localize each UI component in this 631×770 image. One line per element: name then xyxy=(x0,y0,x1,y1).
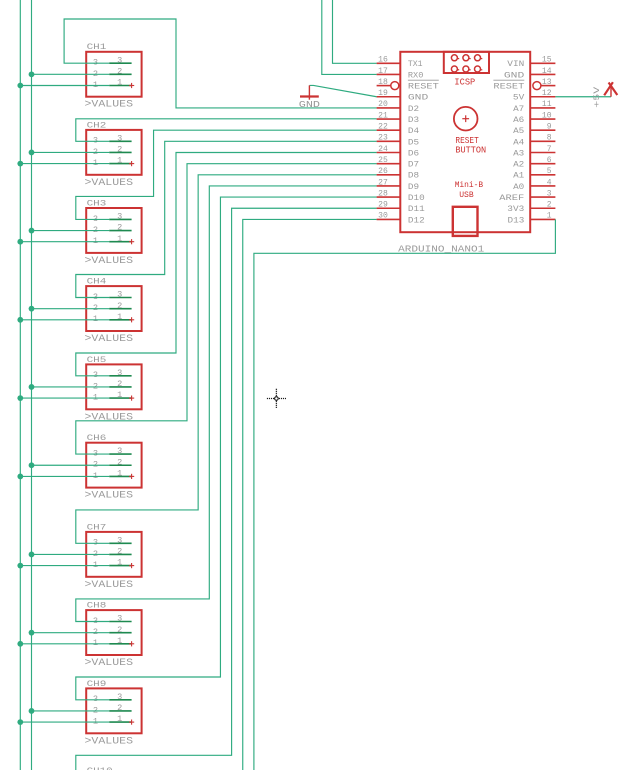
arduino pin 6 A2 xyxy=(513,155,555,170)
junction CH2 pin 2 xyxy=(29,150,35,156)
svg-text:3: 3 xyxy=(93,58,98,68)
CH7 pin 2 xyxy=(109,553,131,555)
CH3 pin 3 xyxy=(109,218,131,220)
CH5 pin-1 polarity cross xyxy=(129,397,134,399)
svg-text:3: 3 xyxy=(93,214,98,224)
svg-text:A4: A4 xyxy=(513,137,524,147)
arduino pin 2 3V3 xyxy=(507,200,555,215)
mini-B USB connector xyxy=(453,180,483,236)
arduino pin 26 D8 xyxy=(377,166,420,181)
svg-text:26: 26 xyxy=(378,166,388,176)
wire CH7 pin3 to D8 xyxy=(76,175,377,544)
wire bus to CH4 pin 2 xyxy=(32,308,110,310)
svg-text:2: 2 xyxy=(117,66,122,76)
svg-text:RESET: RESET xyxy=(408,82,439,92)
junction CH4 pin 2 xyxy=(29,306,35,312)
wire CH6 pin3 to D7 xyxy=(76,164,377,454)
arduino pin 15 VIN xyxy=(507,55,555,70)
svg-text:D9: D9 xyxy=(408,182,419,192)
wire bus to CH9 pin 2 xyxy=(32,710,110,712)
svg-text:2: 2 xyxy=(547,200,552,210)
svg-text:CH4: CH4 xyxy=(87,277,107,287)
mouse cursor crosshair xyxy=(267,389,286,409)
wire bus to CH3 pin 1 xyxy=(20,241,109,243)
arduino pin 24 D6 xyxy=(377,144,420,159)
svg-text:A5: A5 xyxy=(513,126,524,136)
svg-text:D11: D11 xyxy=(408,204,425,214)
svg-text:3V3: 3V3 xyxy=(507,204,524,214)
CH2 pin 3 xyxy=(109,140,131,142)
connector CH10 xyxy=(87,766,113,770)
svg-text:CH10: CH10 xyxy=(87,766,113,770)
svg-text:1: 1 xyxy=(93,471,98,481)
arduino pin 30 D12 xyxy=(377,211,425,226)
svg-text:D12: D12 xyxy=(408,215,425,225)
svg-text:4: 4 xyxy=(547,177,552,187)
connector CH5 xyxy=(85,355,142,424)
power symbol +5V xyxy=(592,82,617,108)
arduino pin 3 AREF xyxy=(499,188,555,203)
CH1 pin 2 xyxy=(109,73,131,75)
svg-text:RESET: RESET xyxy=(493,82,524,92)
svg-text:3: 3 xyxy=(93,538,98,548)
svg-text:16: 16 xyxy=(378,55,388,65)
svg-text:>VALUES: >VALUES xyxy=(85,100,134,111)
svg-text:3: 3 xyxy=(117,446,122,456)
arduino pin 10 A6 xyxy=(513,110,555,125)
wire bus to CH2 pin 2 xyxy=(32,151,110,153)
reset button xyxy=(454,107,486,155)
svg-text:A2: A2 xyxy=(513,160,524,170)
wire bus to CH5 pin 2 xyxy=(32,386,110,388)
wire bus to CH8 pin 1 xyxy=(20,643,109,645)
connector CH2 xyxy=(85,120,142,189)
svg-text:CH7: CH7 xyxy=(87,522,107,532)
svg-text:BUTTON: BUTTON xyxy=(455,145,486,155)
wire CH3 pin3 to D4 xyxy=(76,130,377,219)
svg-text:USB: USB xyxy=(459,190,474,200)
svg-text:7: 7 xyxy=(547,144,552,154)
CH5 pin 1 xyxy=(109,397,131,399)
svg-text:CH2: CH2 xyxy=(87,120,107,130)
svg-text:2: 2 xyxy=(117,703,122,713)
junction CH9 pin 1 xyxy=(17,719,23,725)
svg-text:GND: GND xyxy=(408,93,428,103)
wire CH2 pin3 to D3 xyxy=(76,119,377,142)
svg-text:13: 13 xyxy=(542,77,552,87)
arduino pin 16 TX1 xyxy=(377,55,423,70)
svg-text:RX0: RX0 xyxy=(408,70,424,80)
svg-text:1: 1 xyxy=(117,312,122,322)
CH3 pin-1 polarity cross xyxy=(129,241,134,243)
svg-text:1: 1 xyxy=(93,560,98,570)
svg-text:A3: A3 xyxy=(513,148,524,158)
junction CH6 pin 1 xyxy=(17,474,23,480)
CH2 pin-1 polarity cross xyxy=(129,163,134,165)
svg-text:1: 1 xyxy=(117,469,122,479)
CH8 pin 1 xyxy=(109,643,131,645)
junction CH7 pin 2 xyxy=(29,552,35,558)
wire bus to CH6 pin 2 xyxy=(32,464,110,466)
connector CH9 xyxy=(85,679,142,748)
svg-text:2: 2 xyxy=(117,301,122,311)
CH1 pin-1 polarity cross xyxy=(129,85,134,87)
svg-text:>VALUES: >VALUES xyxy=(85,580,134,591)
svg-text:11: 11 xyxy=(542,99,552,109)
svg-text:D8: D8 xyxy=(408,171,419,181)
svg-text:3: 3 xyxy=(93,616,98,626)
svg-text:1: 1 xyxy=(547,211,552,221)
svg-text:28: 28 xyxy=(378,188,388,198)
arduino pin 1 D13 xyxy=(508,211,556,226)
junction CH4 pin 1 xyxy=(17,317,23,323)
connector CH6 xyxy=(85,433,142,502)
svg-text:CH9: CH9 xyxy=(87,679,107,689)
arduino pin 19 GND xyxy=(377,88,429,103)
svg-text:2: 2 xyxy=(93,705,98,715)
wire 5V pin to +5V symbol xyxy=(555,96,611,98)
svg-text:ICSP: ICSP xyxy=(454,76,475,87)
svg-text:1: 1 xyxy=(117,636,122,646)
svg-text:3: 3 xyxy=(547,188,552,198)
svg-text:>VALUES: >VALUES xyxy=(85,412,134,423)
svg-text:18: 18 xyxy=(378,77,388,87)
svg-text:17: 17 xyxy=(378,66,388,76)
svg-text:D7: D7 xyxy=(408,160,419,170)
junction CH9 pin 2 xyxy=(29,708,35,714)
svg-text:2: 2 xyxy=(93,627,98,637)
wire GND symbol to pin 19 xyxy=(309,85,376,96)
svg-text:3: 3 xyxy=(93,136,98,146)
svg-text:GND: GND xyxy=(504,70,524,80)
svg-text:VIN: VIN xyxy=(507,59,524,69)
connector CH4 xyxy=(85,277,142,346)
svg-text:1: 1 xyxy=(117,234,122,244)
arduino pin 18 RESET xyxy=(377,77,439,92)
svg-text:12: 12 xyxy=(542,88,552,98)
arduino pin 12 5V xyxy=(513,88,556,103)
svg-text:1: 1 xyxy=(93,158,98,168)
svg-text:1: 1 xyxy=(93,314,98,324)
svg-text:1: 1 xyxy=(93,236,98,246)
CH3 pin 2 xyxy=(109,230,131,232)
CH9 pin-1 polarity cross xyxy=(129,721,134,723)
connector CH1 xyxy=(85,42,142,111)
svg-text:D4: D4 xyxy=(408,126,419,136)
svg-text:3: 3 xyxy=(93,694,98,704)
svg-text:14: 14 xyxy=(542,66,552,76)
svg-text:5V: 5V xyxy=(513,93,525,103)
svg-text:29: 29 xyxy=(378,200,388,210)
arduino pin 7 A3 xyxy=(513,144,555,159)
bus wire net pin2 (x=31.5) xyxy=(31,0,33,770)
wire bus to CH1 pin 1 xyxy=(20,85,109,87)
CH2 pin 1 xyxy=(109,163,131,165)
svg-text:5: 5 xyxy=(547,166,552,176)
svg-text:A6: A6 xyxy=(513,115,524,125)
arduino pin 9 A5 xyxy=(513,122,555,137)
wire CH9 pin3 to D10 xyxy=(76,197,377,700)
CH6 pin-1 polarity cross xyxy=(129,475,134,477)
arduino pin 27 D9 xyxy=(377,177,420,192)
svg-text:2: 2 xyxy=(93,549,98,559)
svg-text:3: 3 xyxy=(117,614,122,624)
junction CH2 pin 1 xyxy=(17,161,23,167)
CH8 pin 2 xyxy=(109,632,131,634)
svg-text:1: 1 xyxy=(93,638,98,648)
svg-text:24: 24 xyxy=(378,144,388,154)
junction CH3 pin 1 xyxy=(17,239,23,245)
wire CH8 pin3 to D9 xyxy=(76,186,377,622)
svg-text:1: 1 xyxy=(93,393,98,403)
svg-text:2: 2 xyxy=(93,69,98,79)
arduino pin 8 A4 xyxy=(513,133,555,148)
svg-text:CH6: CH6 xyxy=(87,433,107,443)
CH7 pin-1 polarity cross xyxy=(129,565,134,567)
wire D12 to bottom edge xyxy=(243,219,377,770)
svg-text:A7: A7 xyxy=(513,104,524,114)
junction CH5 pin 1 xyxy=(17,395,23,401)
svg-text:D13: D13 xyxy=(508,215,525,225)
svg-text:CH3: CH3 xyxy=(87,198,107,208)
svg-text:3: 3 xyxy=(117,290,122,300)
CH9 pin 1 xyxy=(109,721,131,723)
ground symbol GND xyxy=(299,85,320,110)
wire TX1 from top edge xyxy=(333,0,377,63)
CH3 pin 1 xyxy=(109,241,131,243)
svg-text:TX1: TX1 xyxy=(408,59,423,69)
arduino pin 5 A1 xyxy=(513,166,555,181)
svg-text:A1: A1 xyxy=(513,171,524,181)
svg-text:3: 3 xyxy=(93,449,98,459)
svg-text:D10: D10 xyxy=(408,193,425,203)
junction CH1 pin 1 xyxy=(17,83,23,89)
bus wire net pin1 (x=20.3) xyxy=(19,0,21,770)
svg-text:AREF: AREF xyxy=(499,193,524,203)
svg-text:3: 3 xyxy=(117,535,122,545)
wire bus to CH4 pin 1 xyxy=(20,319,109,321)
CH9 pin 2 xyxy=(109,710,131,712)
svg-text:2: 2 xyxy=(117,625,122,635)
wire bus to CH2 pin 1 xyxy=(20,163,109,165)
junction CH8 pin 1 xyxy=(17,641,23,647)
wire bus to CH7 pin 1 xyxy=(20,565,109,567)
svg-text:1: 1 xyxy=(117,390,122,400)
svg-text:D2: D2 xyxy=(408,104,419,114)
svg-text:1: 1 xyxy=(93,717,98,727)
CH6 pin 2 xyxy=(109,464,131,466)
wire bus to CH9 pin 1 xyxy=(20,721,109,723)
svg-text:2: 2 xyxy=(93,460,98,470)
CH6 pin 1 xyxy=(109,475,131,477)
connector CH7 xyxy=(85,522,142,591)
svg-text:20: 20 xyxy=(378,99,388,109)
arduino pin 21 D3 xyxy=(377,110,420,125)
wire CH10 pin3 to D11 xyxy=(76,208,377,770)
junction CH5 pin 2 xyxy=(29,384,35,390)
svg-text:2: 2 xyxy=(117,145,122,155)
arduino pin 14 GND xyxy=(504,66,556,81)
svg-text:10: 10 xyxy=(542,110,552,120)
svg-text:>VALUES: >VALUES xyxy=(85,334,134,345)
svg-text:2: 2 xyxy=(117,379,122,389)
junction CH8 pin 2 xyxy=(29,630,35,636)
CH6 pin 3 xyxy=(109,453,131,455)
svg-text:27: 27 xyxy=(378,177,388,187)
svg-text:D5: D5 xyxy=(408,137,419,147)
svg-text:9: 9 xyxy=(547,122,552,132)
arduino pin 28 D10 xyxy=(377,188,425,203)
svg-text:1: 1 xyxy=(117,156,122,166)
connector CH8 xyxy=(85,601,142,670)
wire bus to CH3 pin 2 xyxy=(32,230,110,232)
svg-text:15: 15 xyxy=(542,55,552,65)
arduino pin 17 RX0 xyxy=(377,66,424,81)
svg-text:Mini-B: Mini-B xyxy=(455,180,484,190)
wire CH1 pin3 to D2 xyxy=(64,19,377,108)
svg-text:3: 3 xyxy=(117,212,122,222)
wire bus to CH6 pin 1 xyxy=(20,475,109,477)
arduino pin 25 D7 xyxy=(377,155,420,170)
svg-text:2: 2 xyxy=(117,457,122,467)
svg-text:8: 8 xyxy=(547,133,552,143)
wire CH5 pin3 to D6 xyxy=(76,153,377,376)
svg-text:3: 3 xyxy=(117,133,122,143)
CH4 pin 3 xyxy=(109,297,131,299)
svg-text:25: 25 xyxy=(378,155,388,165)
junction CH1 pin 2 xyxy=(29,71,35,77)
svg-text:23: 23 xyxy=(378,133,388,143)
svg-text:D6: D6 xyxy=(408,148,419,158)
arduino pin 23 D5 xyxy=(377,133,420,148)
svg-text:2: 2 xyxy=(93,303,98,313)
svg-text:>VALUES: >VALUES xyxy=(85,736,134,747)
svg-text:2: 2 xyxy=(117,223,122,233)
CH5 pin 3 xyxy=(109,375,131,377)
CH8 pin-1 polarity cross xyxy=(129,643,134,645)
CH1 pin 1 xyxy=(109,85,131,87)
svg-text:CH1: CH1 xyxy=(87,42,107,52)
wire bus to CH5 pin 1 xyxy=(20,397,109,399)
wire bus to CH1 pin 2 xyxy=(32,73,110,75)
arduino pin 4 A0 xyxy=(513,177,555,192)
CH8 pin 3 xyxy=(109,621,131,623)
svg-text:+5V: +5V xyxy=(592,86,602,108)
svg-text:3: 3 xyxy=(117,55,122,65)
arduino pin 20 D2 xyxy=(377,99,420,114)
svg-text:CH5: CH5 xyxy=(87,355,107,365)
svg-text:21: 21 xyxy=(378,110,388,120)
svg-text:CH8: CH8 xyxy=(87,601,107,611)
arduino pin 29 D11 xyxy=(377,200,425,215)
svg-text:2: 2 xyxy=(93,225,98,235)
wire bus to CH8 pin 2 xyxy=(32,632,110,634)
svg-text:2: 2 xyxy=(93,381,98,391)
svg-text:22: 22 xyxy=(378,122,388,132)
svg-text:6: 6 xyxy=(547,155,552,165)
wire bus to CH7 pin 2 xyxy=(32,553,110,555)
svg-text:3: 3 xyxy=(93,370,98,380)
svg-text:A0: A0 xyxy=(513,182,524,192)
svg-text:1: 1 xyxy=(117,714,122,724)
svg-text:30: 30 xyxy=(378,211,388,221)
CH4 pin 2 xyxy=(109,308,131,310)
svg-text:>VALUES: >VALUES xyxy=(85,658,134,669)
CH1 pin 3 xyxy=(109,62,131,64)
CH4 pin-1 polarity cross xyxy=(129,319,134,321)
CH5 pin 2 xyxy=(109,386,131,388)
svg-text:GND: GND xyxy=(299,100,320,110)
svg-text:3: 3 xyxy=(93,292,98,302)
arduino pin 13 RESET xyxy=(493,77,555,92)
CH7 pin 3 xyxy=(109,542,131,544)
wire CH4 pin3 to D5 xyxy=(76,141,377,297)
CH2 pin 2 xyxy=(109,151,131,153)
svg-text:2: 2 xyxy=(93,147,98,157)
arduino pin 22 D4 xyxy=(377,122,420,137)
svg-text:1: 1 xyxy=(117,78,122,88)
junction CH7 pin 1 xyxy=(17,563,23,569)
junction CH3 pin 2 xyxy=(29,228,35,234)
ICSP header xyxy=(444,52,489,88)
arduino ARDUINO_NANO1 xyxy=(400,52,530,232)
CH9 pin 3 xyxy=(109,699,131,701)
svg-text:>VALUES: >VALUES xyxy=(85,256,134,267)
svg-text:1: 1 xyxy=(117,558,122,568)
connector CH3 xyxy=(85,198,142,267)
svg-text:>VALUES: >VALUES xyxy=(85,491,134,502)
wire D13 to bottom edge xyxy=(254,219,556,770)
svg-text:3: 3 xyxy=(117,368,122,378)
svg-text:2: 2 xyxy=(117,547,122,557)
svg-text:D3: D3 xyxy=(408,115,419,125)
CH4 pin 1 xyxy=(109,319,131,321)
junction CH6 pin 2 xyxy=(29,462,35,468)
svg-text:1: 1 xyxy=(93,80,98,90)
CH7 pin 1 xyxy=(109,565,131,567)
svg-text:19: 19 xyxy=(378,88,388,98)
svg-text:>VALUES: >VALUES xyxy=(85,178,134,189)
svg-text:3: 3 xyxy=(117,692,122,702)
wire RX0 from top edge xyxy=(322,0,377,74)
arduino pin 11 A7 xyxy=(513,99,555,114)
